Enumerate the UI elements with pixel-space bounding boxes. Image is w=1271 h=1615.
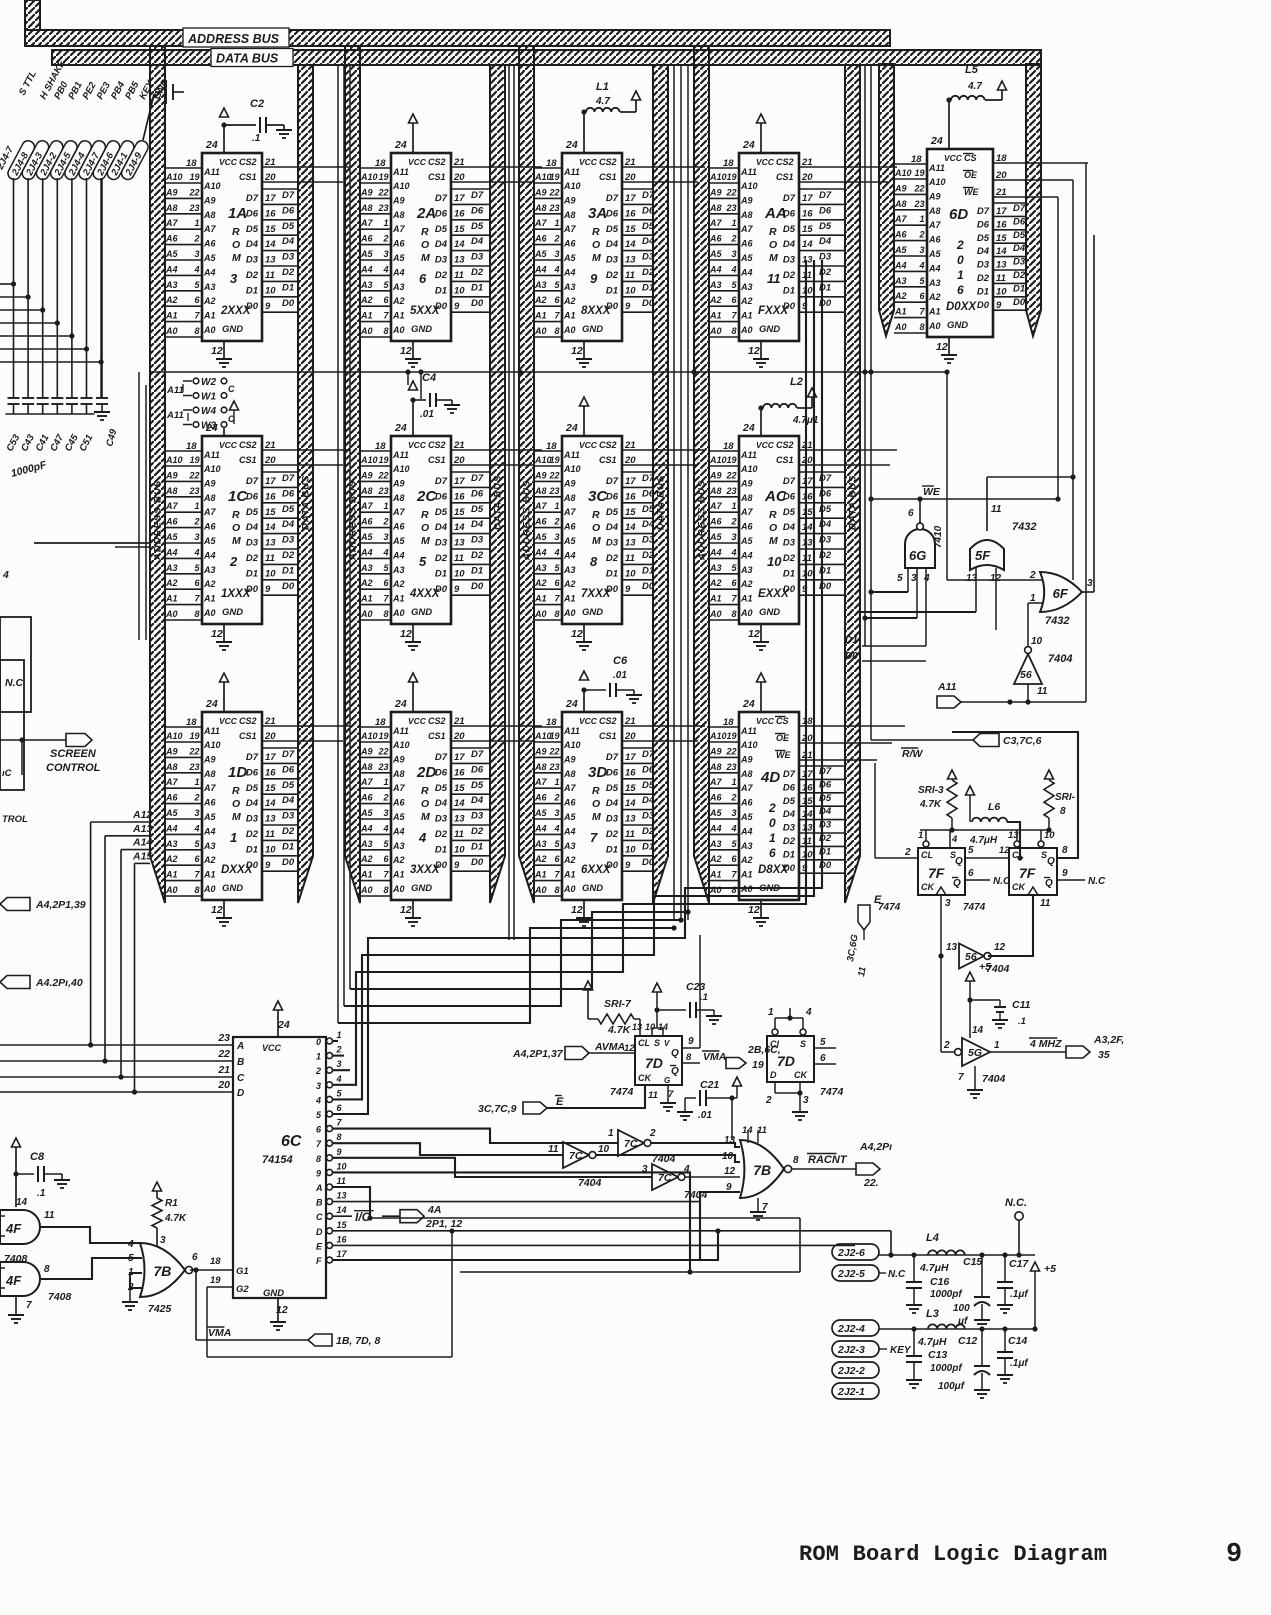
svg-text:N.C.: N.C. bbox=[1005, 1197, 1027, 1209]
svg-text:A2: A2 bbox=[928, 292, 941, 302]
svg-text:EXXX: EXXX bbox=[758, 588, 790, 600]
svg-text:2: 2 bbox=[193, 793, 199, 803]
svg-text:17: 17 bbox=[625, 193, 636, 204]
svg-text:D6: D6 bbox=[606, 767, 619, 778]
svg-text:D6: D6 bbox=[435, 491, 448, 502]
svg-text:1: 1 bbox=[731, 777, 736, 787]
svg-text:G1: G1 bbox=[236, 1266, 249, 1277]
svg-text:6: 6 bbox=[820, 1053, 826, 1064]
svg-text:CS1: CS1 bbox=[599, 172, 617, 182]
svg-text:22: 22 bbox=[725, 187, 736, 197]
svg-text:A5: A5 bbox=[709, 808, 722, 818]
svg-text:A5: A5 bbox=[928, 249, 941, 259]
svg-text:D7: D7 bbox=[282, 749, 295, 760]
svg-text:E: E bbox=[556, 1096, 564, 1108]
svg-text:16: 16 bbox=[454, 208, 465, 219]
svg-text:A0: A0 bbox=[563, 884, 576, 894]
svg-text:A10: A10 bbox=[740, 181, 758, 191]
svg-text:WE: WE bbox=[776, 750, 791, 760]
svg-text:4: 4 bbox=[683, 1164, 690, 1175]
svg-text:11: 11 bbox=[454, 553, 464, 564]
svg-text:A9: A9 bbox=[360, 746, 373, 756]
svg-text:D7: D7 bbox=[642, 190, 655, 201]
svg-text:CS2: CS2 bbox=[428, 716, 446, 726]
svg-text:13: 13 bbox=[1008, 830, 1019, 841]
svg-text:8: 8 bbox=[919, 322, 924, 332]
svg-text:7404: 7404 bbox=[1048, 653, 1072, 665]
svg-text:D4: D4 bbox=[282, 519, 295, 530]
svg-text:12: 12 bbox=[994, 942, 1006, 953]
svg-text:4: 4 bbox=[553, 823, 559, 833]
svg-text:4.7K: 4.7K bbox=[919, 799, 942, 810]
svg-text:2: 2 bbox=[918, 230, 924, 240]
svg-text:D6: D6 bbox=[1013, 216, 1026, 227]
svg-text:A8: A8 bbox=[165, 486, 178, 496]
svg-text:A6: A6 bbox=[392, 522, 405, 532]
svg-text:.01: .01 bbox=[420, 409, 434, 420]
svg-text:17: 17 bbox=[625, 752, 636, 763]
svg-text:O: O bbox=[592, 522, 600, 534]
svg-text:3: 3 bbox=[945, 898, 951, 909]
svg-text:A3: A3 bbox=[360, 563, 373, 573]
svg-text:D4: D4 bbox=[606, 522, 619, 533]
svg-text:GND: GND bbox=[759, 607, 780, 618]
svg-text:D2: D2 bbox=[819, 550, 832, 561]
svg-text:A8: A8 bbox=[740, 493, 753, 503]
svg-text:A8: A8 bbox=[203, 210, 216, 220]
svg-text:A9: A9 bbox=[563, 478, 576, 488]
svg-text:A3: A3 bbox=[165, 280, 178, 290]
svg-text:D0: D0 bbox=[471, 298, 484, 309]
svg-text:VMA: VMA bbox=[208, 1327, 231, 1339]
svg-text:13: 13 bbox=[265, 538, 276, 549]
svg-text:A6: A6 bbox=[165, 517, 178, 527]
svg-text:VCC: VCC bbox=[756, 157, 775, 167]
svg-text:5: 5 bbox=[820, 1037, 826, 1048]
svg-text:A0: A0 bbox=[894, 322, 907, 332]
svg-text:D1: D1 bbox=[606, 844, 618, 855]
svg-text:D1: D1 bbox=[471, 282, 483, 293]
svg-text:12: 12 bbox=[400, 904, 412, 916]
svg-text:22: 22 bbox=[725, 746, 736, 756]
svg-text:3: 3 bbox=[194, 249, 199, 259]
svg-text:12: 12 bbox=[748, 345, 760, 357]
svg-text:18: 18 bbox=[186, 441, 197, 452]
svg-text:A3: A3 bbox=[165, 839, 178, 849]
svg-text:7D: 7D bbox=[645, 1055, 663, 1071]
svg-text:A8: A8 bbox=[360, 486, 373, 496]
svg-text:KEY: KEY bbox=[890, 1345, 912, 1356]
svg-text:A6: A6 bbox=[709, 517, 722, 527]
svg-text:21: 21 bbox=[217, 1064, 230, 1076]
svg-text:A4: A4 bbox=[360, 547, 373, 557]
svg-text:2: 2 bbox=[765, 1095, 772, 1106]
svg-text:A6: A6 bbox=[894, 230, 907, 240]
svg-text:10: 10 bbox=[645, 1022, 655, 1032]
svg-text:13: 13 bbox=[625, 255, 636, 266]
svg-text:4: 4 bbox=[730, 264, 736, 274]
svg-text:23: 23 bbox=[548, 486, 559, 496]
svg-text:A7: A7 bbox=[392, 783, 405, 793]
svg-text:A1: A1 bbox=[740, 311, 753, 321]
svg-text:D5: D5 bbox=[1013, 230, 1026, 241]
svg-text:GND: GND bbox=[411, 883, 432, 894]
svg-text:14: 14 bbox=[16, 1197, 28, 1208]
svg-text:4.7: 4.7 bbox=[595, 96, 610, 107]
svg-text:15: 15 bbox=[625, 507, 636, 518]
svg-text:DATA BUS: DATA BUS bbox=[493, 475, 504, 530]
svg-text:A6: A6 bbox=[203, 522, 216, 532]
svg-text:8: 8 bbox=[316, 1154, 321, 1164]
svg-text:A4: A4 bbox=[894, 260, 907, 270]
svg-text:19: 19 bbox=[549, 172, 559, 182]
svg-text:.01: .01 bbox=[698, 1110, 712, 1121]
svg-text:D2: D2 bbox=[642, 267, 655, 278]
svg-text:A9: A9 bbox=[392, 195, 405, 205]
svg-text:10: 10 bbox=[996, 286, 1007, 297]
svg-text:4: 4 bbox=[315, 1095, 321, 1105]
svg-text:4A: 4A bbox=[427, 1204, 441, 1216]
svg-text:M: M bbox=[232, 811, 241, 823]
svg-text:D7: D7 bbox=[282, 473, 295, 484]
svg-text:A2: A2 bbox=[165, 854, 178, 864]
svg-text:D3: D3 bbox=[819, 252, 832, 263]
svg-text:8: 8 bbox=[1062, 845, 1068, 856]
svg-text:4.7K: 4.7K bbox=[164, 1213, 187, 1224]
svg-text:16: 16 bbox=[454, 491, 465, 502]
svg-text:CI: CI bbox=[770, 1039, 779, 1049]
svg-text:3: 3 bbox=[554, 808, 559, 818]
svg-text:A1: A1 bbox=[360, 311, 373, 321]
svg-text:A3: A3 bbox=[563, 282, 576, 292]
svg-text:A9: A9 bbox=[203, 195, 216, 205]
svg-text:A8: A8 bbox=[534, 486, 547, 496]
svg-text:VMA: VMA bbox=[703, 1051, 726, 1063]
svg-text:L6: L6 bbox=[988, 801, 1000, 813]
svg-text:C12: C12 bbox=[958, 1335, 977, 1347]
svg-text:D0: D0 bbox=[1013, 297, 1026, 308]
svg-text:A1: A1 bbox=[203, 594, 216, 604]
svg-text:RACNT: RACNT bbox=[808, 1154, 848, 1166]
svg-text:2P1, 12: 2P1, 12 bbox=[425, 1218, 462, 1230]
svg-text:A11: A11 bbox=[740, 726, 757, 736]
svg-text:1: 1 bbox=[731, 501, 736, 511]
svg-text:14: 14 bbox=[625, 239, 636, 250]
svg-text:.1μf: .1μf bbox=[1010, 1289, 1029, 1300]
svg-text:A5: A5 bbox=[563, 536, 576, 546]
svg-text:5F: 5F bbox=[975, 548, 991, 563]
svg-text:A6: A6 bbox=[392, 798, 405, 808]
svg-text:14: 14 bbox=[625, 798, 636, 809]
svg-text:10: 10 bbox=[767, 554, 782, 569]
svg-text:CS2: CS2 bbox=[599, 157, 617, 167]
svg-text:ADDRESS BUS: ADDRESS BUS bbox=[187, 32, 280, 46]
svg-text:SCREEN: SCREEN bbox=[50, 748, 97, 760]
svg-text:7474: 7474 bbox=[610, 1086, 634, 1098]
svg-text:13: 13 bbox=[966, 573, 978, 584]
svg-text:A8: A8 bbox=[563, 769, 576, 779]
svg-text:D1: D1 bbox=[246, 844, 258, 855]
svg-text:D6: D6 bbox=[435, 767, 448, 778]
svg-text:A2: A2 bbox=[534, 854, 547, 864]
svg-text:D2: D2 bbox=[246, 829, 259, 840]
svg-text:A0: A0 bbox=[360, 885, 373, 895]
svg-text:A10: A10 bbox=[392, 740, 410, 750]
svg-text:R1: R1 bbox=[165, 1198, 178, 1209]
svg-text:13: 13 bbox=[632, 1022, 642, 1032]
svg-text:14: 14 bbox=[658, 1022, 668, 1032]
svg-text:A1: A1 bbox=[392, 870, 405, 880]
svg-text:D8XX: D8XX bbox=[758, 864, 789, 876]
svg-text:10: 10 bbox=[265, 844, 276, 855]
svg-text:A0: A0 bbox=[709, 609, 722, 619]
svg-text:4: 4 bbox=[418, 830, 427, 845]
svg-text:8: 8 bbox=[554, 885, 559, 895]
svg-text:8: 8 bbox=[554, 609, 559, 619]
svg-text:CL: CL bbox=[921, 850, 933, 860]
svg-text:18: 18 bbox=[546, 441, 557, 452]
svg-text:A2: A2 bbox=[709, 854, 722, 864]
svg-text:A0: A0 bbox=[740, 325, 753, 335]
svg-text:15: 15 bbox=[802, 507, 813, 518]
svg-text:11: 11 bbox=[44, 1210, 55, 1221]
svg-text:C13: C13 bbox=[928, 1349, 947, 1361]
svg-text:16: 16 bbox=[337, 1234, 348, 1244]
svg-text:8: 8 bbox=[731, 885, 736, 895]
svg-text:CS2: CS2 bbox=[428, 157, 446, 167]
svg-text:A9: A9 bbox=[894, 183, 907, 193]
svg-text:CS2: CS2 bbox=[599, 440, 617, 450]
svg-text:M: M bbox=[421, 811, 430, 823]
svg-text:D4: D4 bbox=[819, 519, 832, 530]
svg-text:D6: D6 bbox=[435, 208, 448, 219]
svg-text:A6: A6 bbox=[165, 793, 178, 803]
svg-text:24: 24 bbox=[930, 135, 943, 147]
svg-text:D3: D3 bbox=[642, 535, 655, 546]
svg-text:23: 23 bbox=[377, 486, 388, 496]
svg-text:1D: 1D bbox=[228, 764, 247, 781]
svg-text:8: 8 bbox=[194, 326, 199, 336]
svg-text:D4: D4 bbox=[642, 519, 655, 530]
svg-text:CK: CK bbox=[921, 882, 935, 892]
svg-text:D5: D5 bbox=[282, 780, 295, 791]
svg-text:F: F bbox=[316, 1256, 322, 1266]
svg-text:FXXX: FXXX bbox=[758, 305, 789, 317]
svg-text:A6: A6 bbox=[203, 798, 216, 808]
svg-text:SRI-: SRI- bbox=[1055, 792, 1076, 803]
svg-text:A9: A9 bbox=[534, 746, 547, 756]
svg-text:D5: D5 bbox=[471, 780, 484, 791]
svg-text:D5: D5 bbox=[977, 233, 990, 244]
svg-text:11: 11 bbox=[767, 271, 781, 286]
svg-text:O: O bbox=[232, 239, 240, 251]
svg-text:7C: 7C bbox=[624, 1138, 638, 1150]
svg-text:A4: A4 bbox=[709, 264, 722, 274]
svg-text:A3: A3 bbox=[534, 280, 547, 290]
svg-text:4: 4 bbox=[553, 264, 559, 274]
svg-text:15: 15 bbox=[265, 224, 276, 235]
svg-text:A7: A7 bbox=[709, 777, 722, 787]
svg-text:13: 13 bbox=[724, 1135, 736, 1146]
svg-text:10: 10 bbox=[454, 568, 465, 579]
svg-text:A0: A0 bbox=[534, 885, 547, 895]
svg-text:CS: CS bbox=[964, 153, 977, 163]
svg-text:D4: D4 bbox=[471, 795, 484, 806]
svg-text:10: 10 bbox=[454, 844, 465, 855]
svg-text:A3: A3 bbox=[740, 565, 753, 575]
svg-text:0: 0 bbox=[769, 816, 776, 830]
svg-text:16: 16 bbox=[802, 782, 813, 793]
svg-text:CS2: CS2 bbox=[239, 440, 257, 450]
svg-text:16: 16 bbox=[454, 767, 465, 778]
svg-text:D6: D6 bbox=[471, 488, 484, 499]
svg-text:A8: A8 bbox=[392, 493, 405, 503]
svg-text:22: 22 bbox=[188, 746, 199, 756]
svg-text:7: 7 bbox=[668, 1089, 674, 1100]
svg-text:4: 4 bbox=[382, 264, 388, 274]
svg-text:6: 6 bbox=[419, 271, 427, 286]
svg-text:14: 14 bbox=[802, 239, 813, 250]
svg-text:D4: D4 bbox=[977, 246, 990, 257]
svg-text:9: 9 bbox=[590, 271, 598, 286]
svg-text:A3: A3 bbox=[740, 282, 753, 292]
svg-text:2: 2 bbox=[768, 801, 776, 815]
svg-text:A0: A0 bbox=[563, 608, 576, 618]
svg-text:D3: D3 bbox=[819, 535, 832, 546]
svg-text:23: 23 bbox=[913, 199, 924, 209]
svg-text:ADDRESS BUS: ADDRESS BUS bbox=[153, 480, 164, 561]
svg-text:2J2-4: 2J2-4 bbox=[837, 1323, 865, 1335]
svg-text:A11: A11 bbox=[203, 726, 220, 736]
svg-text:8: 8 bbox=[731, 326, 736, 336]
svg-text:A2: A2 bbox=[203, 855, 216, 865]
svg-text:A1: A1 bbox=[203, 311, 216, 321]
svg-text:A3: A3 bbox=[360, 280, 373, 290]
svg-text:R: R bbox=[769, 509, 777, 521]
svg-text:D4: D4 bbox=[783, 522, 796, 533]
svg-text:A4: A4 bbox=[165, 823, 178, 833]
svg-text:A5: A5 bbox=[534, 249, 547, 259]
svg-text:CS2: CS2 bbox=[776, 440, 794, 450]
svg-text:A3: A3 bbox=[203, 565, 216, 575]
svg-text:A5: A5 bbox=[534, 532, 547, 542]
svg-text:A7: A7 bbox=[563, 783, 576, 793]
svg-text:11: 11 bbox=[265, 270, 275, 281]
svg-text:D2: D2 bbox=[606, 553, 619, 564]
svg-text:C17: C17 bbox=[1009, 1258, 1029, 1270]
svg-text:A7: A7 bbox=[392, 507, 405, 517]
svg-text:A0: A0 bbox=[740, 608, 753, 618]
svg-text:D3: D3 bbox=[783, 823, 796, 834]
svg-text:D0: D0 bbox=[819, 860, 832, 871]
svg-text:6C: 6C bbox=[281, 1133, 302, 1150]
svg-text:D2: D2 bbox=[282, 826, 295, 837]
svg-text:100μf: 100μf bbox=[938, 1381, 966, 1392]
svg-text:A4: A4 bbox=[165, 264, 178, 274]
svg-text:A1: A1 bbox=[709, 311, 722, 321]
svg-text:A7: A7 bbox=[709, 218, 722, 228]
svg-text:D1: D1 bbox=[471, 841, 483, 852]
svg-text:D7: D7 bbox=[606, 193, 619, 204]
svg-text:A10: A10 bbox=[165, 172, 183, 182]
svg-text:D5: D5 bbox=[783, 796, 796, 807]
svg-text:3: 3 bbox=[1087, 578, 1093, 589]
svg-text:3: 3 bbox=[803, 1095, 809, 1106]
svg-text:A2: A2 bbox=[165, 295, 178, 305]
svg-text:11: 11 bbox=[625, 270, 635, 281]
svg-text:3: 3 bbox=[383, 532, 388, 542]
svg-text:2: 2 bbox=[730, 234, 736, 244]
svg-text:9: 9 bbox=[688, 1036, 694, 1047]
svg-text:16: 16 bbox=[625, 208, 636, 219]
svg-text:O: O bbox=[769, 522, 777, 534]
svg-text:A0: A0 bbox=[203, 608, 216, 618]
svg-text:22.: 22. bbox=[863, 1177, 879, 1189]
svg-text:9: 9 bbox=[316, 1168, 321, 1178]
svg-text:O: O bbox=[232, 798, 240, 810]
svg-text:D3: D3 bbox=[282, 535, 295, 546]
svg-text:D5: D5 bbox=[783, 224, 796, 235]
svg-text:Q: Q bbox=[953, 878, 961, 889]
svg-text:CS2: CS2 bbox=[428, 440, 446, 450]
svg-text:1: 1 bbox=[194, 218, 199, 228]
svg-text:7: 7 bbox=[26, 1300, 32, 1311]
svg-text:A1: A1 bbox=[534, 311, 547, 321]
svg-text:A9: A9 bbox=[360, 187, 373, 197]
svg-text:R: R bbox=[592, 226, 600, 238]
svg-text:OE: OE bbox=[964, 170, 978, 180]
svg-text:16: 16 bbox=[802, 208, 813, 219]
svg-text:L4: L4 bbox=[926, 1232, 939, 1244]
svg-text:20: 20 bbox=[217, 1079, 230, 1091]
svg-text:A6: A6 bbox=[740, 239, 753, 249]
svg-text:+5: +5 bbox=[1044, 1263, 1056, 1275]
svg-text:A4: A4 bbox=[203, 550, 216, 560]
svg-text:24: 24 bbox=[277, 1019, 290, 1031]
svg-text:18: 18 bbox=[375, 441, 386, 452]
svg-text:A1: A1 bbox=[392, 311, 405, 321]
svg-text:2: 2 bbox=[382, 517, 388, 527]
svg-text:5XXX: 5XXX bbox=[410, 305, 441, 317]
svg-text:9: 9 bbox=[625, 584, 631, 595]
svg-text:19: 19 bbox=[189, 731, 199, 741]
svg-text:D7: D7 bbox=[783, 769, 796, 780]
svg-text:D2: D2 bbox=[471, 826, 484, 837]
svg-text:D1: D1 bbox=[606, 285, 618, 296]
svg-text:9: 9 bbox=[1062, 868, 1068, 879]
svg-text:D4: D4 bbox=[282, 236, 295, 247]
svg-text:CS2: CS2 bbox=[776, 157, 794, 167]
svg-text:A5: A5 bbox=[203, 536, 216, 546]
svg-text:D1: D1 bbox=[435, 568, 447, 579]
svg-text:C: C bbox=[316, 1212, 323, 1222]
svg-text:A8: A8 bbox=[392, 210, 405, 220]
svg-text:B: B bbox=[237, 1057, 244, 1068]
svg-text:R: R bbox=[232, 785, 240, 797]
svg-text:D2: D2 bbox=[435, 270, 448, 281]
svg-text:D5: D5 bbox=[606, 507, 619, 518]
svg-text:A8: A8 bbox=[534, 203, 547, 213]
svg-text:O: O bbox=[592, 798, 600, 810]
svg-text:24: 24 bbox=[394, 698, 407, 710]
svg-text:16: 16 bbox=[625, 767, 636, 778]
svg-text:A0: A0 bbox=[165, 326, 178, 336]
svg-text:9: 9 bbox=[265, 584, 271, 595]
svg-text:DATA BUS: DATA BUS bbox=[301, 475, 312, 530]
svg-text:24: 24 bbox=[205, 698, 218, 710]
svg-text:4F: 4F bbox=[5, 1221, 22, 1236]
svg-text:D2: D2 bbox=[783, 836, 796, 847]
